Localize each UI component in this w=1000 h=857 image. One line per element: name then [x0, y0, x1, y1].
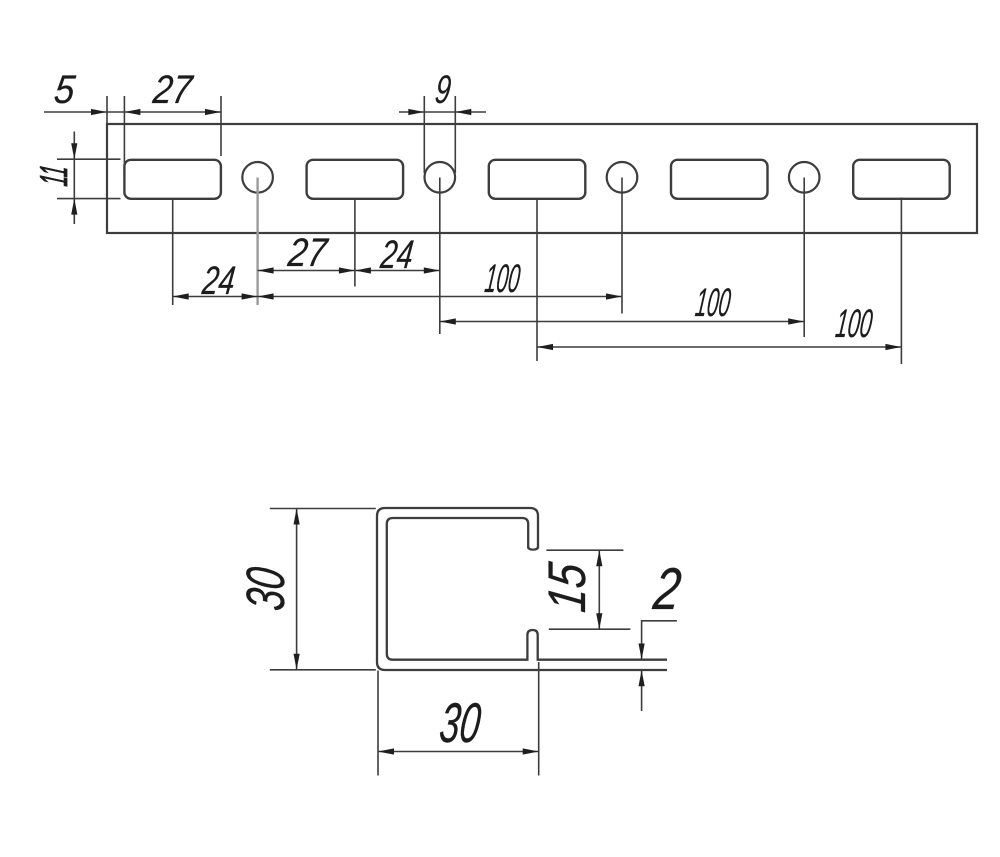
leader slot1 center: [172, 199, 174, 306]
svg-text:30: 30: [437, 691, 485, 754]
arrow 27 left: [124, 109, 140, 115]
svg-text:9: 9: [433, 67, 454, 112]
top lip end cap: [528, 547, 538, 550]
svg-text:100: 100: [483, 256, 523, 301]
arrow 100a left: [258, 293, 274, 299]
arrow 11 bottom: [71, 199, 77, 215]
slot 3: [489, 160, 586, 199]
svg-text:24: 24: [378, 232, 416, 277]
svg-text:5: 5: [52, 67, 78, 112]
dim line 100 third: [537, 346, 901, 348]
extension slot1 left: [123, 96, 125, 170]
arrow 24row left: [355, 267, 371, 273]
arrow 100a right: [606, 293, 622, 299]
svg-text:2: 2: [650, 555, 685, 622]
leader hole3 center: [621, 178, 623, 314]
leader slot3 center: [536, 199, 538, 362]
arrow 30bot left: [378, 748, 394, 754]
slot 2: [307, 160, 404, 199]
leader hole1 center gray: [256, 178, 258, 306]
dim line 24-100 row: [173, 296, 622, 298]
extension hole2 right: [454, 96, 456, 173]
arrow 100b right: [788, 318, 804, 324]
arrow 15 top: [596, 550, 602, 566]
hole 1: [242, 162, 273, 193]
dim line 9: [399, 111, 486, 113]
extension 30 bottom left: [377, 671, 379, 776]
extension strip left edge: [106, 96, 108, 124]
dim line 100 second: [440, 321, 804, 323]
svg-text:27: 27: [285, 230, 331, 275]
leader hole4 center: [803, 178, 805, 338]
svg-text:100: 100: [833, 301, 875, 346]
arrow 9 right: [455, 109, 471, 115]
extension slot1 right: [220, 96, 222, 156]
hole 3: [607, 162, 638, 193]
svg-text:30: 30: [236, 564, 296, 613]
arrow 5 right at strip edge: [91, 109, 107, 115]
leader hole2 center: [439, 178, 441, 335]
arrow 100c left: [537, 344, 553, 350]
arrow 30left bottom: [294, 654, 300, 670]
arrow 24row right: [424, 267, 440, 273]
svg-text:100: 100: [693, 280, 733, 325]
dim 2 lower line: [641, 670, 643, 711]
dim 2 shelf: [642, 621, 677, 660]
cross-section inner contour with bottom lip and tail top: [387, 518, 667, 660]
slot 4: [671, 160, 768, 199]
hole 2: [425, 162, 456, 193]
extension 15 bottom: [549, 628, 631, 630]
dim line 5 and 27: [44, 111, 221, 113]
slot 5: [853, 160, 950, 199]
arrow 100b left: [440, 318, 456, 324]
arrow 30left top: [294, 509, 300, 525]
arrow 27row right: [339, 267, 355, 273]
dim line 11: [73, 132, 75, 225]
arrow 11 top: [71, 143, 77, 159]
extension slot1 top: [57, 158, 121, 160]
svg-text:15: 15: [538, 559, 597, 615]
leader slot5 center: [900, 198, 902, 365]
dim line 30 bottom: [378, 751, 539, 753]
arrow 2 lower: [639, 670, 645, 686]
arrow 9 left: [408, 109, 424, 115]
svg-text:24: 24: [199, 258, 237, 303]
arrow 24b right: [242, 293, 258, 299]
dim line 30 left: [296, 509, 298, 670]
extension hole2 left: [423, 96, 425, 173]
arrow 15 bottom: [596, 613, 602, 629]
arrow 27row left: [258, 267, 274, 273]
extension section top: [270, 508, 376, 510]
dim line 27-24 row: [258, 270, 440, 272]
arrow 2 upper: [639, 644, 645, 660]
strip outline: [107, 124, 977, 233]
arrow 27 right: [205, 109, 221, 115]
cross-section outer contour with tail bottom: [377, 508, 667, 670]
extension slot1 bottom: [57, 198, 121, 200]
extension 30 bottom right: [538, 662, 540, 776]
arrow 24b left: [173, 293, 189, 299]
dim line 15: [598, 550, 600, 629]
extension 15 top: [546, 549, 623, 551]
extension section bottom left: [270, 669, 376, 671]
slot 1: [124, 160, 220, 199]
svg-text:11: 11: [33, 163, 76, 188]
arrow 30bot right: [523, 748, 539, 754]
arrow 100c right: [885, 344, 901, 350]
leader slot2 center: [354, 199, 356, 287]
hole 4: [789, 162, 820, 193]
svg-text:27: 27: [150, 67, 196, 112]
